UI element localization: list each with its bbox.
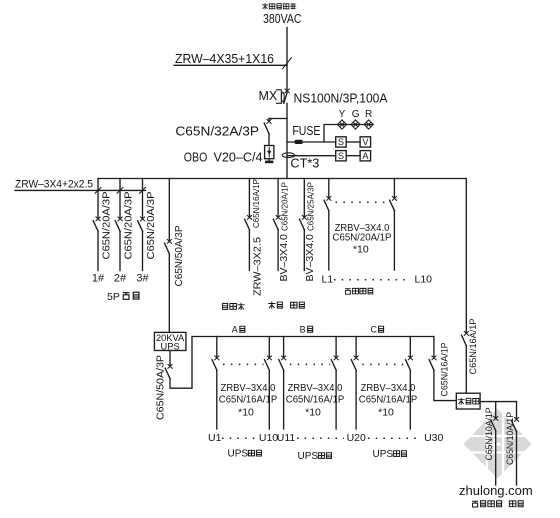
- label spare: [509, 501, 523, 507]
- surge arrester OBO V20-C/4: [265, 146, 274, 159]
- svg-text:Y: Y: [339, 109, 346, 120]
- wire: [346, 155, 360, 157]
- svg-text:380VAC: 380VAC: [263, 11, 302, 26]
- breaker C65N/16A/1P U10: [265, 356, 272, 370]
- breaker C65N/32A/3P surge branch: [264, 119, 271, 133]
- load label maintenance: [268, 302, 282, 309]
- svg-text:B: B: [300, 325, 306, 335]
- wire: [268, 370, 270, 429]
- wire: right feeder to transfer switch: [465, 179, 467, 333]
- svg-text:CT*3: CT*3: [290, 157, 319, 171]
- svg-text:ZRBV–3X4.0: ZRBV–3X4.0: [361, 382, 416, 394]
- svg-text:C65N/20A/3P: C65N/20A/3P: [145, 192, 157, 260]
- svg-text:C: C: [371, 325, 378, 335]
- label city power circuits: [345, 288, 373, 294]
- svg-text:C65N/10A/1P: C65N/10A/1P: [505, 412, 516, 465]
- breaker C65N/16A/1P U30: [406, 356, 413, 370]
- svg-text:S: S: [338, 137, 344, 147]
- breaker C65N/50A/3P UPS output: [165, 364, 172, 378]
- breaker C65N/16A/1P U21: [351, 356, 358, 370]
- breaker C65N/10A/1P emergency-2: [512, 417, 519, 431]
- label UPS circuits 3: [373, 449, 407, 460]
- svg-text:C65N/16A/1P: C65N/16A/1P: [219, 394, 277, 406]
- wire: mid drop BV-3X4.0 #1: [277, 179, 279, 217]
- node B phase: [300, 325, 313, 335]
- svg-text:U30: U30: [424, 432, 443, 444]
- svg-text:FUSE: FUSE: [292, 124, 320, 138]
- wire: emergency circuit 1: [495, 402, 497, 417]
- svg-text:U20: U20: [347, 432, 366, 444]
- wire: phase A circuit 1: [216, 337, 218, 357]
- wire: phase B circuit 11: [283, 337, 285, 357]
- svg-text:3#: 3#: [136, 273, 149, 285]
- breaker C65N/16A/1P U20: [331, 356, 338, 370]
- label UPS circuits 1: [228, 449, 262, 460]
- svg-text:*10: *10: [305, 407, 321, 419]
- meter switch S2: [336, 151, 347, 161]
- svg-text:U11: U11: [277, 432, 296, 444]
- svg-text:UPS: UPS: [228, 449, 249, 460]
- wire: [287, 155, 336, 157]
- breaker C65N/20A/1P circuit: [273, 215, 280, 229]
- breaker C65N/10A/1P emergency-1: [491, 416, 498, 430]
- svg-text:BV–3X4.0: BV–3X4.0: [304, 234, 316, 281]
- svg-text:G: G: [352, 109, 360, 120]
- wire: [346, 141, 360, 143]
- svg-text:1#: 1#: [92, 273, 105, 285]
- svg-text:C65N/50A/3P: C65N/50A/3P: [156, 355, 167, 420]
- svg-text:UPS: UPS: [298, 451, 319, 462]
- node L1...L10: [322, 274, 433, 286]
- wire: [328, 211, 330, 270]
- breaker C65N/16A/1P U11: [279, 356, 286, 370]
- cable label ZRW-4X35+1X16: [174, 51, 292, 69]
- wire: city circuit group left: [328, 179, 330, 198]
- cable label ZRW-3X4+2x2.5: [15, 179, 146, 194]
- node U1..U30 row: [208, 432, 443, 444]
- indicator lamp R: [364, 120, 373, 129]
- svg-text:2#: 2#: [114, 273, 127, 285]
- svg-text:U10: U10: [259, 432, 278, 444]
- svg-text:C65N/16A/1P: C65N/16A/1P: [286, 394, 344, 406]
- svg-text:S: S: [338, 151, 344, 161]
- wire: [248, 230, 250, 271]
- wire: [277, 230, 279, 271]
- svg-text:ZRW–3X2.5: ZRW–3X2.5: [252, 237, 264, 296]
- svg-text:*10: *10: [378, 407, 394, 419]
- svg-text:C65N/20A/3P: C65N/20A/3P: [101, 192, 113, 260]
- svg-text:C65N/16A/1P: C65N/16A/1P: [439, 343, 450, 397]
- wire: mid drop ZRW-3X2.5: [248, 179, 250, 217]
- wire: [495, 431, 497, 485]
- breaker UPS output: [169, 351, 171, 366]
- wire: AC drop 3: [142, 179, 144, 218]
- svg-text:BV–3X4.0: BV–3X4.0: [278, 234, 290, 281]
- wire: [355, 370, 357, 429]
- svg-text:ZRW–3X4+2x2.5: ZRW–3X4+2x2.5: [15, 179, 93, 191]
- svg-text:C65N/16A/1P: C65N/16A/1P: [468, 319, 479, 375]
- node: source label 380VAC: [262, 3, 302, 26]
- svg-text:C65N/32A/3P: C65N/32A/3P: [175, 124, 259, 139]
- svg-text:L1: L1: [322, 274, 334, 286]
- watermark logo: [461, 406, 535, 482]
- svg-text:A: A: [362, 151, 369, 161]
- indicator lamp G: [351, 120, 360, 129]
- wire: AC drop 2: [119, 179, 121, 218]
- svg-text:MX: MX: [259, 89, 278, 103]
- breaker C65N/16A/1P U1: [212, 356, 219, 370]
- label emergency lighting: [472, 501, 502, 507]
- wire: [465, 346, 467, 393]
- breaker C65N/16A/1P fan circuit: [245, 215, 252, 229]
- wire: [284, 93, 287, 104]
- wire: city circuit group right: [393, 179, 395, 198]
- wire: phase B circuit 20: [335, 337, 337, 357]
- wire: [216, 370, 218, 429]
- wire: [174, 64, 287, 66]
- svg-text:L10: L10: [415, 274, 433, 286]
- breaker C65N/16A/1P mains-to-transfer: [462, 331, 469, 345]
- breaker C65N/20A/1P L-group last: [390, 196, 397, 210]
- meter switch S1: [336, 137, 347, 147]
- svg-text:C65N/20A/1P: C65N/20A/1P: [333, 232, 392, 244]
- svg-text:C65N/25A/3P: C65N/25A/3P: [307, 182, 316, 231]
- wire: phase C circuit 21: [355, 337, 357, 357]
- load label exhaust fan: [223, 303, 245, 310]
- UPS unit 20KVA: [154, 332, 186, 351]
- wire: mid drop BV-3X4.0 #2: [303, 179, 305, 217]
- wire: phase C circuit 30: [409, 337, 411, 357]
- wire: branch to surge arrester: [269, 118, 287, 120]
- svg-text:ZRW–4X35+1X16: ZRW–4X35+1X16: [175, 51, 274, 66]
- svg-text:ZRBV–3X4.0: ZRBV–3X4.0: [288, 382, 343, 394]
- wire: lamp riser: [324, 125, 373, 143]
- breaker C65N/20A/3P AC-2: [115, 217, 122, 231]
- svg-text:C65N/50A/3P: C65N/50A/3P: [174, 225, 185, 286]
- breaker C65N/20A/3P AC-3: [138, 217, 145, 231]
- voltmeter V: [360, 137, 371, 147]
- wire: main incomer vertical: [286, 28, 288, 90]
- wire: [168, 254, 170, 333]
- svg-text:C65N/20A/3P: C65N/20A/3P: [123, 192, 135, 260]
- svg-text:ZRBV–3X4.0: ZRBV–3X4.0: [221, 382, 276, 394]
- label UPS circuits 2: [298, 451, 332, 462]
- wire: [97, 231, 99, 270]
- shunt trip MX: [259, 89, 285, 103]
- node A phase: [232, 325, 245, 335]
- wire: emergency bus: [480, 401, 516, 403]
- transfer switch box: [456, 393, 480, 409]
- svg-text:V: V: [362, 137, 369, 147]
- node C phase: [371, 325, 384, 335]
- svg-text:OBO: OBO: [184, 150, 208, 165]
- wire: UPS bus to transfer switch: [433, 337, 435, 357]
- breaker C65N/16A/1P UPS-to-transfer: [429, 356, 436, 370]
- current transformer CT*3: [282, 153, 335, 171]
- wire: [119, 231, 121, 270]
- svg-text:C65N/16A/1P: C65N/16A/1P: [252, 179, 261, 228]
- svg-text:C65N/16A/1P: C65N/16A/1P: [359, 394, 417, 406]
- fuse FUSE: [287, 124, 336, 144]
- breaker C65N/25A/3P circuit: [300, 215, 307, 229]
- svg-text:C65N/20A/1P: C65N/20A/1P: [280, 182, 289, 231]
- wire: [286, 103, 288, 178]
- wire: [303, 230, 305, 271]
- ground: [268, 159, 270, 161]
- bus: main distribution bus: [98, 178, 466, 180]
- svg-text:5P: 5P: [107, 291, 120, 303]
- svg-text:A: A: [232, 325, 238, 335]
- svg-text:*10: *10: [238, 407, 254, 419]
- wire: [15, 189, 146, 191]
- wire: [516, 432, 518, 485]
- wire: phase A circuit 10: [268, 337, 270, 357]
- breaker C65N/20A/1P L-group first: [324, 196, 331, 210]
- wire: UPS feed drop: [168, 179, 170, 241]
- dotted repeat marks: [336, 201, 390, 203]
- svg-text:U1: U1: [208, 432, 222, 444]
- breaker Q0 NS100N: [285, 89, 289, 93]
- wire: AC drop 1: [97, 179, 99, 218]
- wire: [287, 141, 336, 143]
- bus: UPS output bus: [192, 336, 434, 338]
- wire: [268, 134, 270, 146]
- wire: [335, 370, 337, 429]
- load label spare: [291, 302, 305, 308]
- ammeter A: [360, 151, 371, 161]
- breaker C65N/20A/3P AC-1: [93, 217, 100, 231]
- wire: [393, 211, 395, 270]
- svg-text:UPS: UPS: [373, 449, 394, 460]
- svg-text:*10: *10: [353, 244, 369, 256]
- wire: emergency circuit 2: [516, 402, 518, 418]
- wire: [409, 370, 411, 429]
- wire: [142, 231, 144, 270]
- svg-text:R: R: [365, 109, 372, 120]
- wire: [268, 119, 270, 121]
- load label 5P air conditioners: [107, 291, 139, 303]
- wire: [283, 370, 285, 429]
- svg-text:V20–C/4: V20–C/4: [214, 150, 263, 165]
- svg-text:C65N/10A/1P: C65N/10A/1P: [484, 408, 495, 461]
- breaker C65N/50A/3P UPS feed: [165, 239, 172, 253]
- svg-text:NS100N/3P,100A: NS100N/3P,100A: [294, 92, 389, 106]
- indicator lamp Y: [337, 120, 346, 129]
